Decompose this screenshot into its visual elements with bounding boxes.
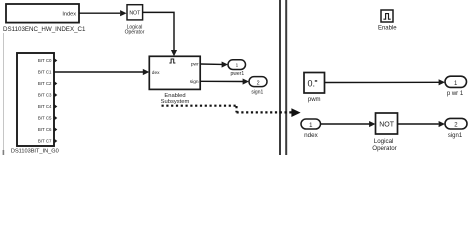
svg-text:1: 1 [236, 63, 239, 68]
svg-text:Enable: Enable [378, 26, 397, 32]
svg-text:0.: 0. [308, 79, 316, 89]
svg-text:dex: dex [152, 70, 160, 76]
svg-text:Logical: Logical [374, 138, 394, 145]
svg-text:DS1103BIT_IN_G0: DS1103BIT_IN_G0 [11, 149, 59, 155]
svg-text:Index: Index [62, 11, 76, 17]
svg-text:DS1103ENC_HW_INDEX_C1: DS1103ENC_HW_INDEX_C1 [3, 26, 86, 33]
svg-text:2: 2 [257, 80, 260, 86]
svg-text:BIT C5: BIT C5 [38, 116, 52, 121]
svg-text:sign1: sign1 [448, 133, 463, 139]
svg-text:Subsystem: Subsystem [161, 99, 190, 105]
svg-text:BIT C3: BIT C3 [38, 93, 52, 98]
svg-text:NOT: NOT [129, 11, 141, 17]
svg-text:pwer1: pwer1 [230, 71, 244, 77]
svg-text:pwm: pwm [308, 97, 321, 103]
svg-text:pwr: pwr [191, 61, 199, 67]
svg-text:Operator: Operator [125, 29, 145, 35]
svg-text:BIT C4: BIT C4 [38, 104, 52, 109]
svg-text:BIT C6: BIT C6 [38, 127, 52, 132]
svg-text:BIT C2: BIT C2 [38, 81, 52, 86]
svg-text:sign1: sign1 [251, 90, 263, 96]
svg-text:sign: sign [190, 79, 199, 85]
svg-text:BIT C7: BIT C7 [38, 139, 52, 144]
svg-text:BIT C0: BIT C0 [38, 58, 52, 63]
svg-text:Operator: Operator [372, 145, 396, 152]
svg-text:ndex: ndex [304, 132, 319, 139]
svg-text:p wr 1: p wr 1 [447, 91, 464, 97]
svg-text:BIT C1: BIT C1 [38, 70, 52, 75]
svg-text:NOT: NOT [379, 122, 395, 129]
